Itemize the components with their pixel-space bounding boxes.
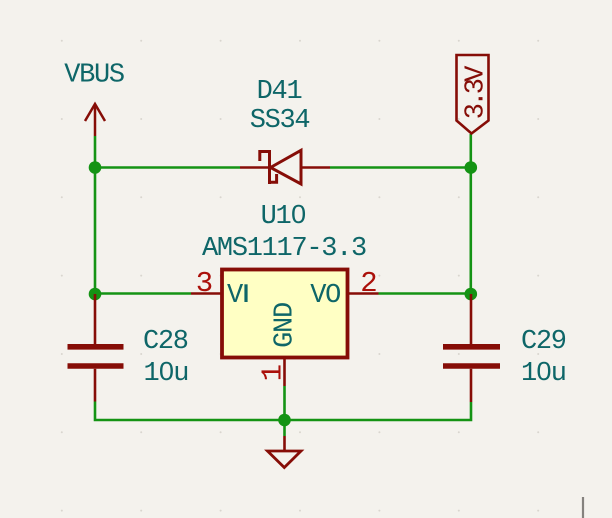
- ground stem: [283, 436, 286, 451]
- svg-text:C29: C29: [521, 327, 566, 357]
- svg-text:VBUS: VBUS: [64, 61, 124, 91]
- sheet border line: [582, 497, 584, 518]
- junction left top: [89, 161, 102, 174]
- grid dots: [61, 40, 539, 512]
- junction bottom GND: [278, 414, 291, 427]
- global label 3.3V flag: [457, 55, 489, 134]
- svg-text:VO: VO: [310, 281, 340, 311]
- svg-text:2: 2: [360, 267, 377, 300]
- wire right vertical 3.3V to VO row: [469, 134, 472, 294]
- capacitor C29 plates: [443, 347, 500, 366]
- svg-text:3: 3: [196, 267, 213, 300]
- power symbol VBUS: [85, 104, 105, 136]
- capacitor C28 plates: [68, 347, 124, 366]
- wire top horizontal left: [95, 166, 240, 169]
- junction right top: [465, 161, 478, 174]
- capacitor C29 bottom lead: [470, 369, 473, 402]
- U10 pin 1 GND bottom pin: [283, 357, 286, 386]
- U10 pin 2 VO right pin: [348, 292, 379, 295]
- diode D41 schottky cathode bar: [260, 150, 277, 184]
- U10 pin 3 VI left pin: [191, 292, 222, 295]
- wire left vertical VBUS to VI row: [94, 136, 97, 294]
- diode D41 triangle: [271, 150, 302, 184]
- wire GND stem: [283, 386, 286, 436]
- wire C28 bottom corner: [95, 402, 285, 421]
- svg-text:1: 1: [257, 364, 290, 381]
- svg-text:AMS1117-3.3: AMS1117-3.3: [202, 234, 366, 264]
- junction right VO row: [465, 288, 478, 301]
- op-amp U10 body: [222, 270, 348, 358]
- diode D41 left pin: [240, 166, 270, 169]
- junction left VI row: [89, 288, 102, 301]
- wire U10 VI to junction: [95, 292, 191, 295]
- svg-text:3.3V: 3.3V: [462, 65, 492, 120]
- svg-text:GND: GND: [271, 303, 301, 348]
- wire top horizontal right: [330, 166, 471, 169]
- diode D41 right pin: [301, 166, 330, 169]
- capacitor C28 bottom lead: [94, 369, 97, 402]
- wire C29 bottom corner: [285, 402, 472, 420]
- capacitor C28 top lead: [94, 294, 97, 344]
- svg-text:V: V: [227, 281, 244, 311]
- wire U10 VO to junction: [379, 292, 471, 295]
- svg-text:C28: C28: [143, 327, 188, 357]
- svg-text:SS34: SS34: [250, 106, 310, 136]
- capacitor C29 top lead: [470, 294, 473, 344]
- svg-text:D41: D41: [257, 77, 302, 107]
- ground: [268, 451, 302, 468]
